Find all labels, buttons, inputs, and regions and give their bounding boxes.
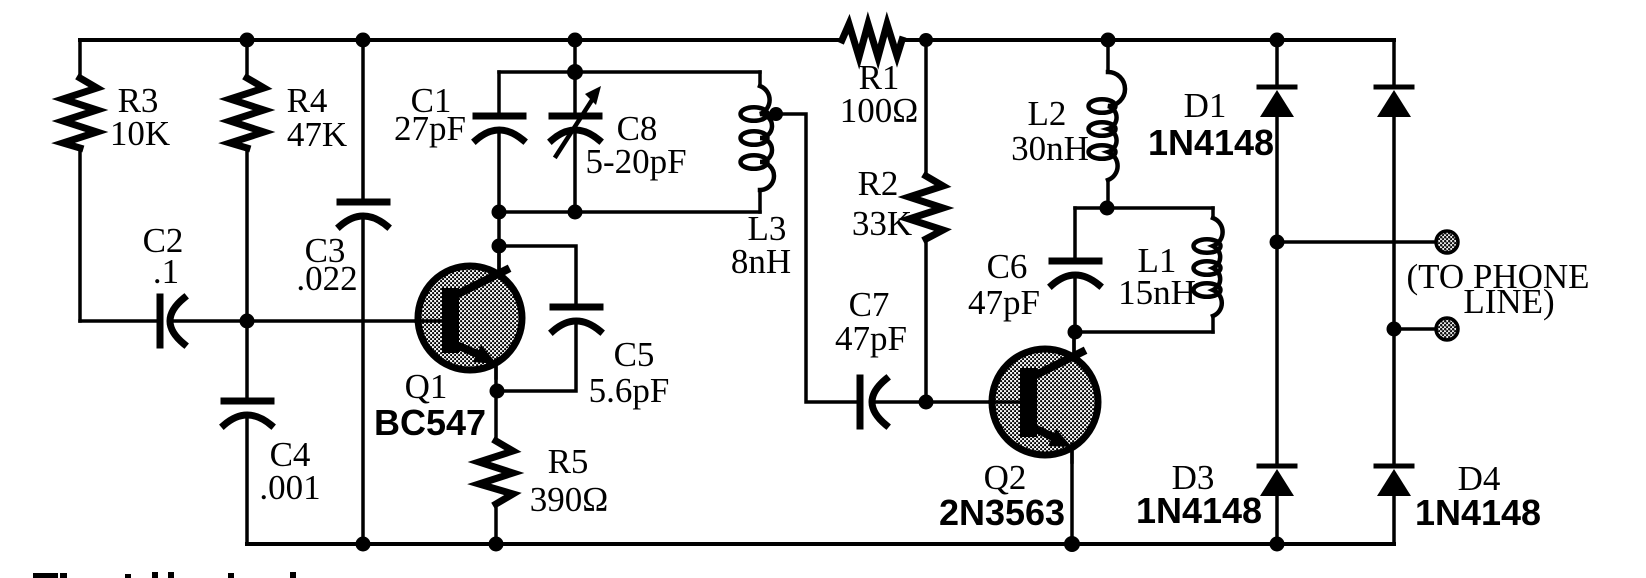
junction Q1 collector C5: [492, 239, 507, 254]
wire C6 top: [1073, 208, 1077, 259]
svg-text:R5: R5: [548, 442, 589, 481]
capacitor C7: [860, 378, 886, 426]
svg-text:47pF: 47pF: [835, 319, 907, 358]
junction L2 top rail: [1101, 33, 1116, 48]
svg-text:5.6pF: 5.6pF: [589, 371, 670, 410]
capacitor C2: [160, 297, 184, 345]
wire D4 to bottom rail: [1392, 496, 1396, 544]
wire tank bottom: [499, 210, 760, 214]
inductor L3: [758, 72, 762, 86]
wire Q2 emitter: [1070, 449, 1074, 544]
caption fragment bottom left: [33, 572, 296, 578]
wire top rail right: [902, 38, 1394, 42]
capacitor C8 variable: [573, 72, 577, 114]
svg-text:R2: R2: [858, 164, 899, 203]
junction D1 terminal wire: [1270, 235, 1285, 250]
svg-text:.001: .001: [259, 468, 320, 507]
svg-text:D1: D1: [1184, 86, 1227, 125]
junction D4 terminal wire: [1387, 322, 1402, 337]
svg-text:47pF: 47pF: [968, 283, 1040, 322]
junction tank top wire: [567, 64, 583, 80]
wire left column bottom: [78, 147, 82, 321]
resistor R1: [842, 24, 902, 57]
svg-text:27pF: 27pF: [394, 109, 466, 148]
diode D1: [1259, 87, 1295, 117]
junction C3 bottom rail: [356, 537, 371, 552]
junction R4 top rail: [240, 33, 255, 48]
svg-text:LINE): LINE): [1463, 282, 1554, 321]
capacitor C3: [340, 202, 387, 226]
junction C1 tank bottom: [492, 205, 507, 220]
junction D3 bottom rail: [1270, 537, 1285, 552]
wire C3 column top: [361, 40, 365, 199]
wire tank top: [499, 70, 760, 74]
wire D3 to bottom rail: [1275, 496, 1279, 544]
svg-text:1N4148: 1N4148: [1136, 490, 1262, 531]
wire R2 to base row: [924, 238, 928, 402]
wire terminal 1: [1277, 240, 1436, 244]
svg-text:30nH: 30nH: [1011, 129, 1089, 168]
wire C6 L1 top row: [1075, 206, 1213, 210]
wire D1 column top: [1275, 40, 1279, 86]
junction Q1 emitter C5: [490, 384, 505, 399]
transistor Q2: [990, 332, 1098, 462]
junction C3 top rail: [356, 33, 371, 48]
svg-text:Q1: Q1: [405, 367, 448, 406]
capacitor C4: [224, 401, 271, 425]
wire bottom rail: [247, 542, 1394, 546]
wire top rail left: [80, 38, 842, 42]
diode D4: [1376, 466, 1412, 496]
wire C3 column bottom: [361, 218, 365, 544]
svg-text:1N4148: 1N4148: [1148, 122, 1274, 163]
wire R2 column: [924, 40, 928, 177]
svg-text:BC547: BC547: [374, 402, 486, 443]
terminal circle 2: [1436, 318, 1458, 340]
svg-text:33K: 33K: [852, 204, 912, 243]
diode D3: [1259, 466, 1295, 496]
wire C4 to bottom rail: [245, 417, 249, 544]
inductor L1: [1211, 208, 1215, 218]
wire R4 column top: [245, 40, 249, 79]
wire C5 branch top: [499, 246, 576, 304]
wire C6 bottom: [1073, 277, 1077, 332]
wire D1 to D3: [1275, 117, 1279, 465]
svg-text:100Ω: 100Ω: [840, 91, 919, 130]
svg-text:.1: .1: [153, 252, 179, 291]
resistor R4: [230, 78, 264, 148]
junction C2 R4 column: [240, 314, 255, 329]
svg-text:L2: L2: [1028, 94, 1067, 133]
junction C6 L1 Q2 collector: [1068, 325, 1083, 340]
resistor R3: [63, 78, 97, 148]
capacitor C6: [1052, 261, 1099, 285]
wire base row left: [80, 319, 156, 323]
wire terminal 2: [1394, 327, 1436, 331]
wire R4 column to C4: [245, 147, 249, 398]
junction tank top rail: [568, 33, 583, 48]
svg-text:.022: .022: [296, 259, 357, 298]
wire L3 tap: [776, 114, 856, 402]
svg-text:C5: C5: [614, 335, 655, 374]
junction D1 top rail: [1270, 33, 1285, 48]
wire C5 bottom: [497, 323, 576, 391]
wire D2 to D4: [1392, 117, 1396, 465]
junction C8 tank bottom: [568, 205, 583, 220]
junction L3 tap: [769, 107, 783, 121]
svg-text:8nH: 8nH: [731, 242, 791, 281]
capacitor C1: [497, 72, 501, 114]
resistor R2: [909, 176, 943, 239]
diode D2: [1376, 87, 1412, 117]
junction Q2 emitter bottom rail: [1064, 536, 1080, 552]
wire Q2 collector: [1072, 332, 1076, 358]
svg-text:390Ω: 390Ω: [530, 480, 609, 519]
wire D2 column top: [1392, 40, 1396, 86]
svg-text:15nH: 15nH: [1118, 273, 1196, 312]
junction R5 bottom rail: [489, 537, 504, 552]
terminal circle 1: [1436, 231, 1458, 253]
svg-text:10K: 10K: [110, 114, 170, 153]
wire Q1 emitter: [494, 367, 498, 442]
svg-text:5-20pF: 5-20pF: [585, 142, 686, 181]
wire C7 to Q2 base: [874, 400, 992, 404]
wire left column top: [78, 40, 82, 79]
capacitor C5: [553, 307, 600, 331]
inductor L2: [1106, 40, 1110, 71]
junction L2 bottom: [1100, 201, 1115, 216]
transistor Q1: [416, 246, 522, 378]
wire R5 to bottom rail: [494, 504, 498, 544]
svg-text:2N3563: 2N3563: [939, 492, 1065, 533]
wire base row right to Q1: [173, 319, 442, 323]
svg-text:C6: C6: [987, 247, 1028, 286]
wire tank drop: [573, 40, 577, 72]
resistor R5: [479, 441, 513, 504]
junction R2 Q2 base: [919, 395, 934, 410]
svg-text:47K: 47K: [287, 115, 347, 154]
wire L1 bottom row: [1075, 330, 1213, 334]
svg-text:1N4148: 1N4148: [1415, 492, 1541, 533]
wire Q1 collector: [497, 212, 501, 276]
junction R1 R2: [919, 33, 933, 47]
